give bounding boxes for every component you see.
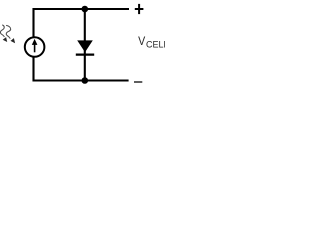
plus terminal label xyxy=(135,4,144,14)
svg-text:CELL: CELL xyxy=(146,39,165,49)
photon arrow 1 (light ray, left) xyxy=(0,25,7,42)
wire bottom horizontal xyxy=(33,79,129,81)
wire diode branch vertical xyxy=(84,8,86,82)
diode D1 cathode bar xyxy=(76,53,94,55)
label VCELL xyxy=(138,36,168,50)
minus terminal label xyxy=(134,81,142,83)
photon arrow 2 (light ray, right) xyxy=(6,25,15,43)
wire top horizontal xyxy=(33,8,130,10)
wire left vertical xyxy=(32,8,34,82)
current source I1 (photocurrent source circle) xyxy=(25,37,45,57)
junction node bottom xyxy=(82,77,89,84)
current source arrow (points up) xyxy=(32,39,38,52)
junction node top xyxy=(82,6,89,13)
diode D1 triangle (anode, pointing down) xyxy=(77,40,93,52)
svg-text:V: V xyxy=(138,36,146,49)
